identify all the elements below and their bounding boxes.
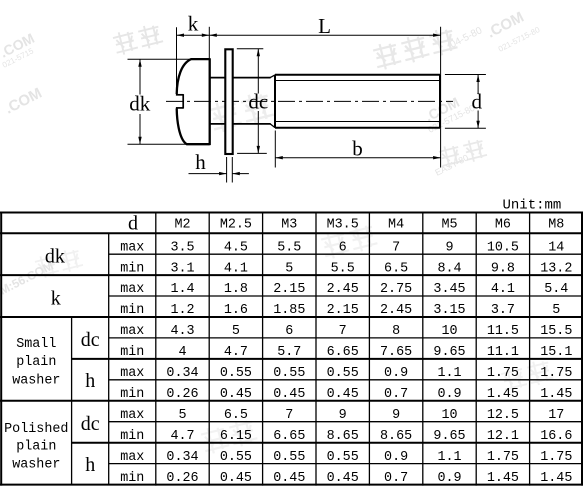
- svg-text:5: 5: [285, 261, 293, 276]
- row captions: [4, 240, 144, 485]
- svg-text:6.65: 6.65: [273, 429, 305, 444]
- svg-text:k: k: [51, 287, 61, 309]
- svg-text:4.1: 4.1: [491, 282, 515, 297]
- svg-text:8.65: 8.65: [327, 429, 359, 444]
- svg-text:5: 5: [178, 408, 186, 423]
- svg-text:L: L: [318, 14, 331, 38]
- svg-text:0.45: 0.45: [220, 471, 252, 486]
- svg-text:9: 9: [339, 408, 347, 423]
- dimension dc (washer diameter): [237, 49, 267, 154]
- svg-text:0.55: 0.55: [327, 450, 359, 465]
- svg-text:dc: dc: [248, 89, 268, 113]
- svg-text:5.4: 5.4: [544, 282, 568, 297]
- svg-text:b: b: [352, 136, 363, 160]
- svg-text:10: 10: [441, 324, 457, 339]
- svg-text:6: 6: [285, 324, 293, 339]
- svg-text:dk: dk: [129, 92, 151, 116]
- table header row: [128, 213, 564, 235]
- svg-text:8.65: 8.65: [380, 429, 412, 444]
- svg-text:2.45: 2.45: [380, 303, 412, 318]
- svg-text:plain: plain: [16, 355, 56, 370]
- dimension h (washer thickness): [189, 157, 249, 183]
- svg-text:6.5: 6.5: [224, 408, 248, 423]
- dimension d (thread diameter): [445, 75, 486, 129]
- svg-text:13.2: 13.2: [540, 261, 572, 276]
- svg-text:dc: dc: [81, 329, 100, 351]
- svg-text:max: max: [120, 366, 144, 381]
- svg-text:1.45: 1.45: [540, 471, 572, 486]
- svg-text:0.55: 0.55: [220, 366, 252, 381]
- svg-text:8.4: 8.4: [437, 261, 461, 276]
- svg-text:2.15: 2.15: [273, 282, 305, 297]
- svg-text:1.4: 1.4: [170, 282, 194, 297]
- svg-text:1.1: 1.1: [437, 366, 461, 381]
- svg-text:dk: dk: [45, 245, 65, 267]
- svg-text:3.7: 3.7: [491, 303, 515, 318]
- svg-text:3.15: 3.15: [433, 303, 465, 318]
- captive washer: [225, 49, 232, 154]
- svg-text:15.5: 15.5: [540, 324, 572, 339]
- screw head (pan head, side view): [177, 58, 210, 145]
- svg-text:15.1: 15.1: [540, 345, 572, 360]
- svg-text:M3.5: M3.5: [327, 218, 359, 233]
- svg-text:0.45: 0.45: [273, 471, 305, 486]
- svg-text:1.45: 1.45: [487, 471, 519, 486]
- svg-text:9.65: 9.65: [433, 345, 465, 360]
- svg-text:17: 17: [548, 408, 564, 423]
- svg-text:0.26: 0.26: [166, 471, 198, 486]
- dimension k (head height): [177, 27, 210, 94]
- thread run-out chamfer: [270, 75, 275, 128]
- svg-text:0.55: 0.55: [273, 366, 305, 381]
- svg-text:4.5: 4.5: [224, 240, 248, 255]
- svg-text:6.65: 6.65: [327, 345, 359, 360]
- svg-text:M4: M4: [388, 218, 404, 233]
- svg-text:0.45: 0.45: [327, 387, 359, 402]
- svg-text:8: 8: [392, 324, 400, 339]
- svg-text:max: max: [120, 282, 144, 297]
- svg-text:h: h: [85, 370, 95, 392]
- svg-text:4.1: 4.1: [224, 261, 248, 276]
- svg-text:max: max: [120, 240, 144, 255]
- svg-text:6.15: 6.15: [220, 429, 252, 444]
- svg-text:10: 10: [441, 408, 457, 423]
- svg-text:1.1: 1.1: [437, 450, 461, 465]
- svg-text:k: k: [188, 12, 199, 36]
- svg-text:7.65: 7.65: [380, 345, 412, 360]
- svg-text:7: 7: [339, 324, 347, 339]
- svg-text:0.45: 0.45: [220, 387, 252, 402]
- svg-text:d: d: [128, 213, 138, 235]
- svg-text:min: min: [120, 261, 144, 276]
- watermark cluster right-middle: [422, 94, 488, 178]
- centerline: [166, 100, 453, 102]
- svg-text:0.7: 0.7: [384, 471, 408, 486]
- svg-text:11.1: 11.1: [487, 345, 519, 360]
- svg-text:M8: M8: [548, 218, 564, 233]
- svg-text:2.75: 2.75: [380, 282, 412, 297]
- svg-text:M2: M2: [174, 218, 190, 233]
- svg-text:1.75: 1.75: [540, 366, 572, 381]
- svg-text:7: 7: [285, 408, 293, 423]
- svg-text:9.65: 9.65: [433, 429, 465, 444]
- svg-text:1.8: 1.8: [224, 282, 248, 297]
- svg-text:6.5: 6.5: [384, 261, 408, 276]
- svg-text:1.85: 1.85: [273, 303, 305, 318]
- svg-text:7: 7: [392, 240, 400, 255]
- svg-text:0.26: 0.26: [166, 387, 198, 402]
- svg-text:min: min: [120, 345, 144, 360]
- svg-text:min: min: [120, 387, 144, 402]
- svg-text:0.45: 0.45: [327, 471, 359, 486]
- svg-text:1.6: 1.6: [224, 303, 248, 318]
- svg-text:9: 9: [445, 240, 453, 255]
- svg-text:6: 6: [339, 240, 347, 255]
- svg-text:0.34: 0.34: [166, 450, 198, 465]
- svg-text:0.9: 0.9: [384, 450, 408, 465]
- svg-text:5: 5: [232, 324, 240, 339]
- svg-text:5.5: 5.5: [331, 261, 355, 276]
- watermark cluster top-right: [372, 9, 542, 72]
- svg-text:4.7: 4.7: [170, 429, 194, 444]
- svg-text:0.9: 0.9: [437, 387, 461, 402]
- svg-text:dc: dc: [81, 413, 100, 435]
- svg-text:max: max: [120, 324, 144, 339]
- svg-text:h: h: [85, 454, 95, 476]
- svg-text:1.75: 1.75: [487, 366, 519, 381]
- watermark cluster center drawing: [208, 90, 275, 134]
- svg-text:h: h: [195, 150, 206, 174]
- svg-text:16.6: 16.6: [540, 429, 572, 444]
- dimension L (screw length): [209, 27, 440, 168]
- svg-text:0.7: 0.7: [384, 387, 408, 402]
- svg-text:M3: M3: [281, 218, 297, 233]
- threaded portion: [275, 75, 440, 128]
- svg-text:1.75: 1.75: [487, 450, 519, 465]
- svg-text:10.5: 10.5: [487, 240, 519, 255]
- svg-text:5.5: 5.5: [277, 240, 301, 255]
- svg-text:Polished: Polished: [4, 422, 68, 437]
- svg-text:12.1: 12.1: [487, 429, 519, 444]
- shank between head and thread: [210, 78, 271, 124]
- svg-text:min: min: [120, 429, 144, 444]
- svg-text:4.3: 4.3: [170, 324, 194, 339]
- svg-text:washer: washer: [12, 457, 60, 472]
- svg-text:3.5: 3.5: [170, 240, 194, 255]
- svg-text:d: d: [472, 90, 483, 114]
- svg-text:3.45: 3.45: [433, 282, 465, 297]
- watermark cluster top-left: [0, 22, 164, 69]
- svg-text:max: max: [120, 450, 144, 465]
- svg-text:1.45: 1.45: [487, 387, 519, 402]
- svg-text:4: 4: [178, 345, 186, 360]
- svg-text:9.8: 9.8: [491, 261, 515, 276]
- watermark clusters in table area (very faint): [34, 247, 84, 279]
- svg-text:Small: Small: [16, 337, 56, 352]
- dimension dk (head diameter): [128, 59, 192, 144]
- svg-text:M2.5: M2.5: [220, 218, 252, 233]
- table horizontal rules: [0, 213, 583, 485]
- svg-text:0.45: 0.45: [273, 387, 305, 402]
- svg-text:M5: M5: [441, 218, 457, 233]
- svg-text:0.9: 0.9: [384, 366, 408, 381]
- table data values: [166, 240, 572, 485]
- svg-text:min: min: [120, 303, 144, 318]
- svg-text:washer: washer: [12, 374, 60, 389]
- svg-text:5: 5: [552, 303, 560, 318]
- svg-text:9: 9: [392, 408, 400, 423]
- svg-text:M6: M6: [495, 218, 511, 233]
- svg-text:plain: plain: [16, 440, 56, 455]
- svg-text:11.5: 11.5: [487, 324, 519, 339]
- table vertical rules: [1, 212, 582, 486]
- svg-text:0.55: 0.55: [273, 450, 305, 465]
- svg-text:3.1: 3.1: [170, 261, 194, 276]
- svg-text:max: max: [120, 408, 144, 423]
- svg-text:2.15: 2.15: [327, 303, 359, 318]
- dimension b (thread length): [275, 131, 440, 168]
- svg-text:1.2: 1.2: [170, 303, 194, 318]
- svg-text:5.7: 5.7: [277, 345, 301, 360]
- svg-text:12.5: 12.5: [487, 408, 519, 423]
- svg-text:min: min: [120, 471, 144, 486]
- svg-text:0.9: 0.9: [437, 471, 461, 486]
- svg-text:2.45: 2.45: [327, 282, 359, 297]
- svg-text:4.7: 4.7: [224, 345, 248, 360]
- svg-text:1.45: 1.45: [540, 387, 572, 402]
- cross recess (slot) on head: [176, 94, 183, 109]
- svg-text:0.34: 0.34: [166, 366, 198, 381]
- svg-text:Unit:mm: Unit:mm: [503, 198, 562, 214]
- svg-text:1.75: 1.75: [540, 450, 572, 465]
- svg-text:0.55: 0.55: [220, 450, 252, 465]
- svg-text:14: 14: [548, 240, 564, 255]
- svg-text:0.55: 0.55: [327, 366, 359, 381]
